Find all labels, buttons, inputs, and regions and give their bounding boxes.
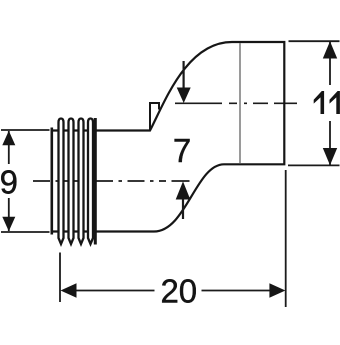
lower centerline (inlet axis)	[33, 180, 166, 182]
dim 9 arrow down	[2, 217, 15, 232]
dim 7 up arrow head	[176, 181, 191, 199]
dim 20 arrow left	[61, 283, 77, 297]
bellows rib 4	[88, 119, 93, 245]
bellows left rim	[50, 128, 53, 235]
pipe body outline	[52, 42, 284, 232]
dim 7 up arrow shaft	[182, 199, 184, 219]
dim 7 down arrow head	[177, 88, 191, 104]
svg-text:7: 7	[173, 132, 191, 169]
dim 11 dimension line	[329, 42, 331, 165]
bellows rib 3	[79, 119, 84, 245]
dim 11 label	[314, 91, 324, 114]
dim 9 bottom extension line	[1, 231, 50, 233]
dim 20 dimension line	[76, 290, 270, 292]
dim 9 top extension line	[1, 129, 50, 131]
svg-text:20: 20	[160, 273, 197, 310]
dim 20 right extension line	[285, 170, 287, 307]
bellows rib 1	[59, 119, 64, 245]
svg-text:9: 9	[0, 164, 18, 201]
dim 20 left extension line	[59, 253, 61, 303]
socket depth line (gray)	[239, 43, 241, 163]
dim 11 arrow up	[323, 41, 337, 58]
dim 9 dimension line	[8, 131, 10, 231]
upper centerline (outlet axis)	[175, 102, 297, 104]
dim 7 down arrow shaft	[183, 61, 185, 89]
dim 9 arrow up	[2, 131, 15, 146]
bellows rib 2	[69, 119, 74, 245]
dim 20 arrow right	[269, 283, 285, 297]
dim 11 top extension line	[289, 40, 340, 42]
dim 11 arrow down	[323, 148, 337, 165]
dim 11 bottom extension line	[288, 164, 340, 166]
alignment tab on body	[150, 103, 159, 131]
bellows end bar	[94, 118, 97, 245]
